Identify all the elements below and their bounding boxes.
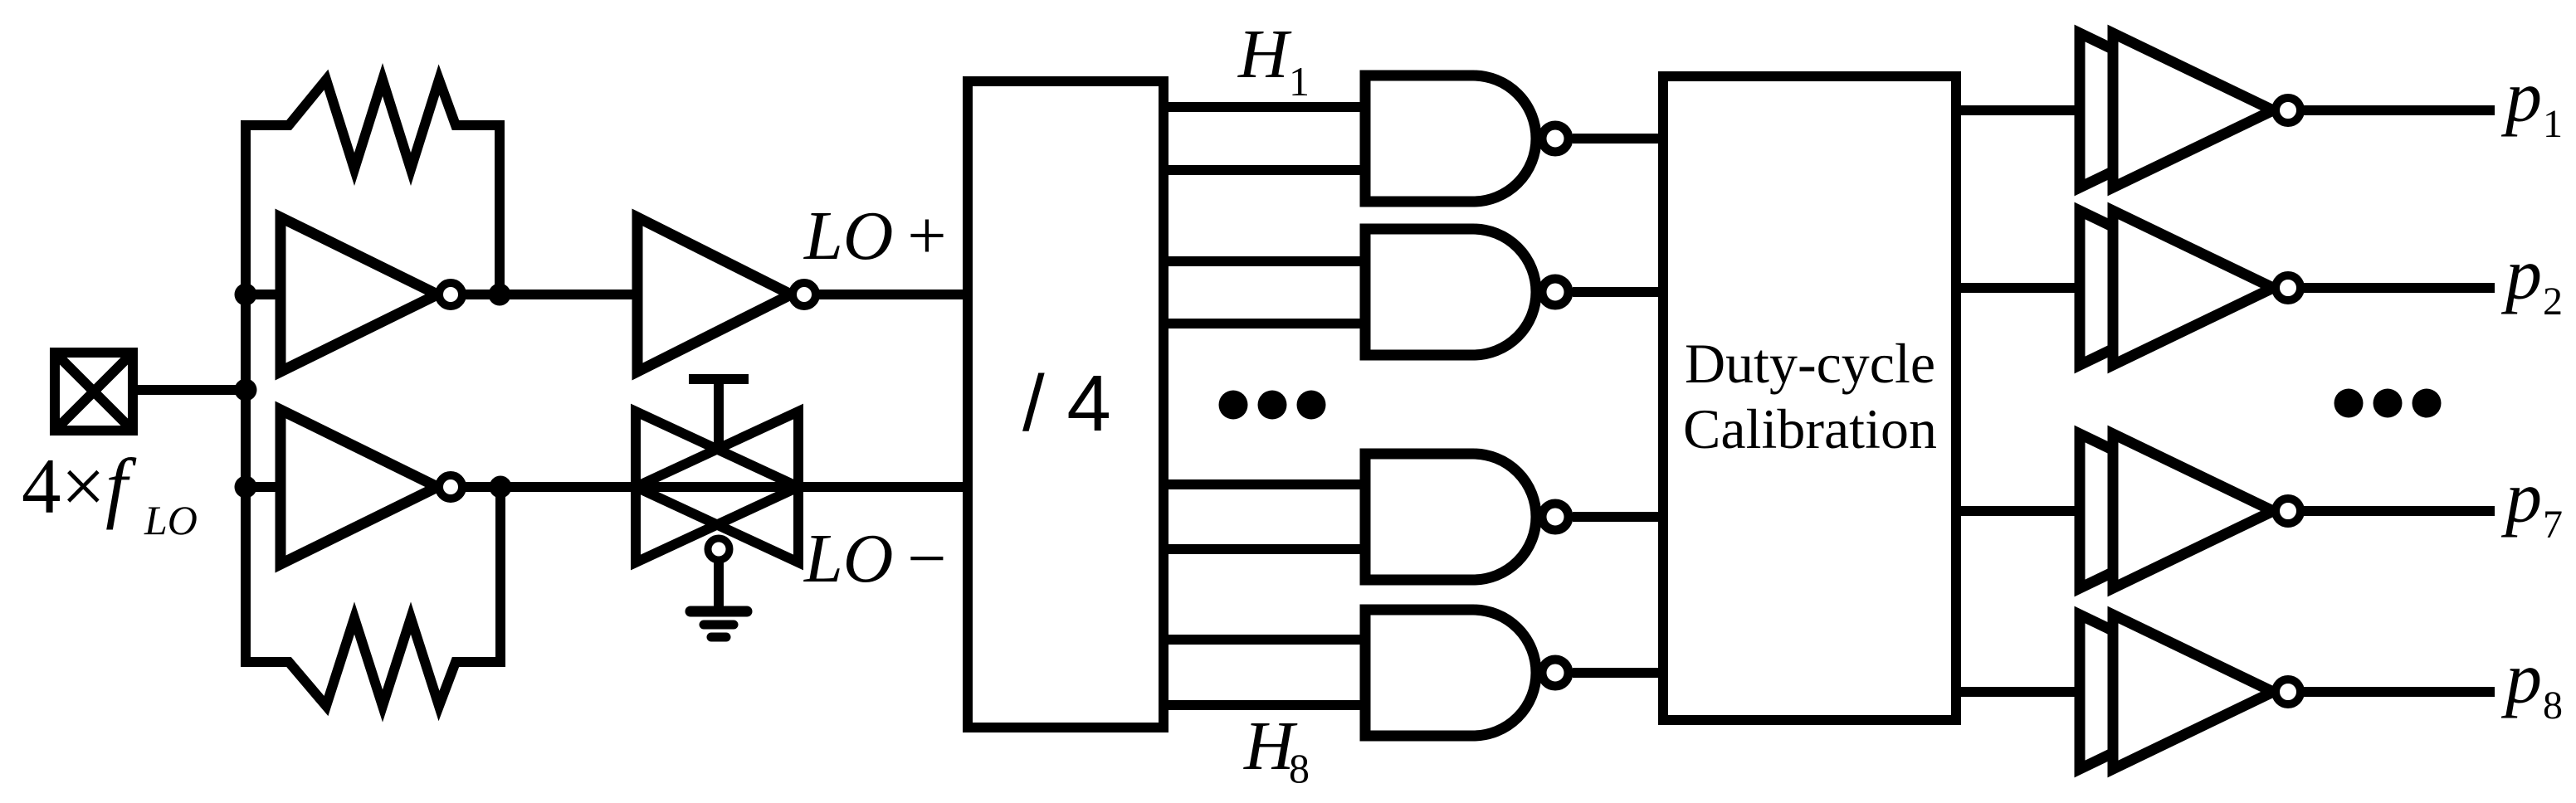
svg-text:p: p: [2500, 57, 2542, 138]
svg-text:LO −: LO −: [803, 520, 947, 597]
svg-text:p: p: [2500, 235, 2542, 315]
svg-text:LO +: LO +: [803, 197, 947, 275]
svg-text:8: 8: [1289, 745, 1310, 791]
svg-text:Duty-cycle: Duty-cycle: [1685, 332, 1935, 395]
svg-text:8: 8: [2543, 684, 2563, 728]
svg-text:1: 1: [1289, 58, 1310, 105]
svg-text:p: p: [2500, 458, 2542, 538]
svg-text:2: 2: [2543, 280, 2563, 324]
svg-text:p: p: [2500, 639, 2542, 719]
svg-text:1: 1: [2543, 102, 2563, 146]
svg-text:/ 4: / 4: [1022, 359, 1111, 448]
svg-text:Calibration: Calibration: [1683, 397, 1937, 460]
svg-text:LO: LO: [144, 497, 198, 543]
svg-text:4×f: 4×f: [22, 442, 137, 530]
svg-text:H: H: [1237, 16, 1292, 93]
svg-text:7: 7: [2543, 503, 2563, 547]
